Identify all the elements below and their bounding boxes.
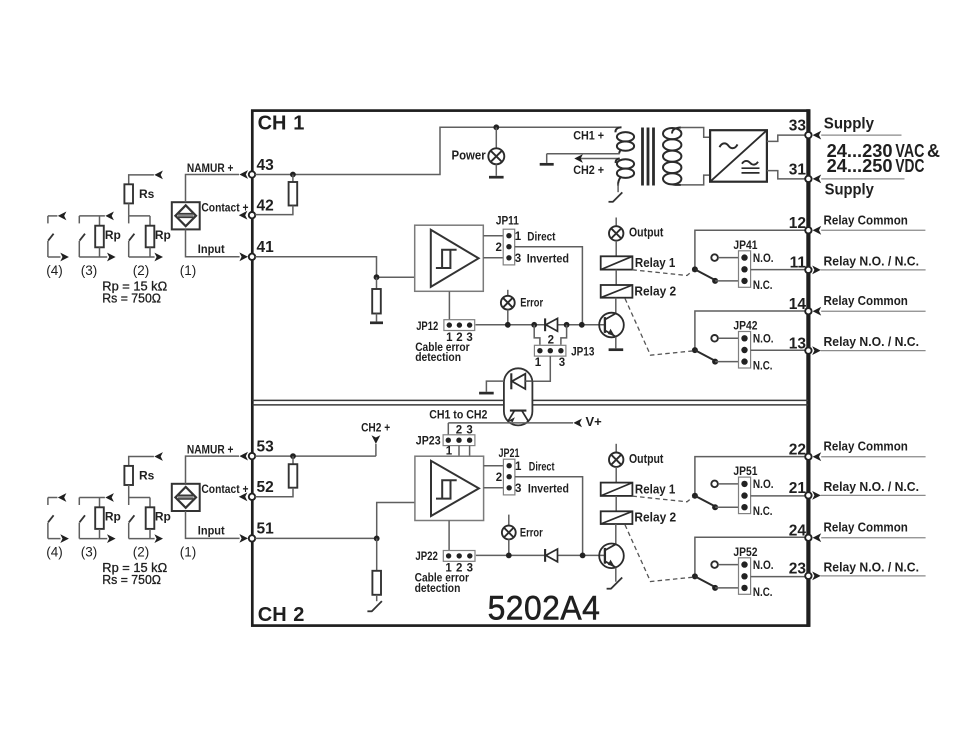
NAMUR sensor (1) CH2 [172,484,200,511]
terminal 42 [249,212,255,218]
svg-text:JP22: JP22 [415,549,438,563]
svg-text:(4): (4) [46,544,63,559]
svg-text:51: 51 [257,521,275,538]
svg-text:Input: Input [198,524,225,538]
svg-text:N.C.: N.C. [753,361,773,373]
wire NAMUR+ CH2 [186,456,240,484]
output lamp CH1 [615,218,617,227]
thick right border / terminal rail [806,109,810,627]
wire 43 to top rail [255,127,621,174]
svg-text:VDC: VDC [895,156,924,176]
svg-text:N.C.: N.C. [753,506,773,518]
svg-text:(1): (1) [180,544,197,559]
node error lamp CH2 [506,553,512,559]
svg-text:33: 33 [789,118,807,135]
svg-text:2: 2 [293,604,304,626]
svg-text:14: 14 [789,296,807,313]
node error lamp CH1 [505,322,511,328]
svg-text:(3): (3) [81,544,98,559]
relay common wire JP42 [695,311,806,350]
svg-text:N.O.: N.O. [753,479,774,491]
wires U1 to JP11 [483,235,503,237]
wire JP13 pin2 to optocoupler [532,356,550,381]
svg-text:31: 31 [789,161,807,178]
terminal 41 [249,254,255,260]
AC/DC converter U4 [710,130,767,182]
node on 53 line [290,453,296,459]
svg-text:(4): (4) [46,263,63,278]
relay common wire JP41 [695,230,806,269]
svg-text:Rp: Rp [155,509,171,523]
svg-text:Relay Common: Relay Common [824,293,908,308]
svg-text:detection: detection [415,350,461,364]
svg-text:Supply: Supply [825,181,874,198]
svg-text:(2): (2) [133,544,150,559]
svg-text:Direct: Direct [527,230,555,244]
svg-text:24: 24 [789,522,807,539]
wire U2 bottom to JP22 [448,521,450,552]
relay switch JP41 [711,254,718,261]
node base CH2 [580,553,586,559]
svg-text:Rs = 750Ω: Rs = 750Ω [102,573,161,587]
error line CH2 [476,554,545,556]
error lamp CH2 [508,515,510,526]
svg-text:V+: V+ [586,414,603,429]
relay coil Relay2 CH1 [601,285,633,298]
svg-text:CH: CH [258,604,287,626]
svg-text:Relay 1: Relay 1 [635,482,675,497]
wire 41 to comparator [255,257,415,277]
wire JP21 pin2 to output node [515,477,583,556]
ground tap of primary [546,154,548,163]
svg-text:52: 52 [257,479,274,496]
svg-text:JP23: JP23 [416,433,441,447]
node on 43 line [290,172,296,178]
diode D2 [544,549,546,562]
svg-text:Contact +: Contact + [201,482,248,496]
relay coil Relay2 CH2 [601,511,633,524]
dashed link Relay2 CH2 [625,525,693,582]
node diode left CH1 [531,322,537,328]
node input divider CH1 [374,274,380,280]
wire JP52 pin2 to terminal [751,576,806,578]
transformer T1 secondary winding [663,128,681,185]
svg-text:N.C.: N.C. [753,587,773,599]
svg-text:NAMUR +: NAMUR + [187,161,234,175]
svg-text:Inverted: Inverted [528,481,569,495]
svg-text:JP12: JP12 [416,319,438,333]
svg-text:41: 41 [257,239,275,256]
wire 51 to comparator [255,503,415,539]
terminal 52 [249,494,255,500]
svg-text:Rs: Rs [139,468,155,482]
wire Input CH2 [186,511,240,538]
svg-text:Output: Output [629,226,664,240]
arrow Contact+ CH2 [239,492,248,501]
svg-text:43: 43 [257,157,275,174]
svg-text:5202A4: 5202A4 [488,589,601,627]
svg-text:Relay Common: Relay Common [824,439,908,454]
wire U1 bottom to JP12 [448,291,450,319]
diode D1 [544,318,546,331]
transistor Q2 [615,524,617,544]
svg-text:CH1 +: CH1 + [573,129,604,143]
dashed link Relay1 CH1 [632,270,693,276]
terminal 43 [249,171,255,177]
svg-text:N.O.: N.O. [753,334,774,346]
relay coil Relay1 CH1 [601,256,633,269]
svg-text:N.O.: N.O. [753,253,774,265]
sensor (3) switch + Rp CH1 [79,215,105,217]
module outline box [252,111,808,626]
svg-text:detection: detection [415,581,461,595]
svg-text:JP52: JP52 [733,545,757,559]
svg-text:(2): (2) [133,263,150,278]
relay common wire JP51 [695,457,806,496]
svg-text:3: 3 [515,483,521,495]
svg-text:Relay N.O. / N.C.: Relay N.O. / N.C. [824,479,920,494]
svg-text:Rs: Rs [139,187,155,201]
svg-text:N.O.: N.O. [753,560,774,572]
dashed link Relay1 CH2 [632,496,693,502]
svg-text:22: 22 [789,441,806,458]
svg-text:3: 3 [515,253,521,265]
sensor (3) switch + Rp CH2 [79,497,105,499]
svg-text:Rp: Rp [155,228,171,242]
sensor (2) switch + Rs + Rp CH1 [129,175,154,184]
svg-text:CH2 +: CH2 + [361,421,390,435]
svg-text:1: 1 [293,113,304,135]
sensor (2) switch + Rs + Rp CH2 [129,457,154,466]
wire Input CH1 [186,229,240,256]
svg-text:Relay 2: Relay 2 [634,283,676,298]
svg-text:Relay Common: Relay Common [824,212,908,227]
ground below input resistor CH1 [370,321,383,324]
svg-text:Relay N.O. / N.C.: Relay N.O. / N.C. [824,559,920,574]
error lamp CH1 [507,290,509,296]
svg-text:JP11: JP11 [496,214,519,228]
svg-text:Relay N.O. / N.C.: Relay N.O. / N.C. [824,334,920,349]
resistor 43-42 [292,175,294,183]
wire NAMUR+ CH1 [186,175,240,203]
stubs to JP13 [534,325,540,345]
break slash CH2 input [372,601,382,611]
svg-text:23: 23 [789,561,807,578]
svg-text:Relay Common: Relay Common [824,520,908,535]
ground below power lamp [489,176,504,179]
svg-text:Relay 2: Relay 2 [634,510,676,525]
svg-text:Input: Input [198,242,225,256]
svg-text:NAMUR +: NAMUR + [187,443,234,457]
wire CH1 to CH2 line [448,422,573,424]
transistor Q1 [615,298,617,314]
svg-text:Direct: Direct [529,459,555,473]
arrow CH2+ to transformer [578,158,620,160]
relay switch JP51 [711,481,718,488]
wires converter to supply terminals [767,135,806,141]
svg-text:Output: Output [629,452,664,466]
svg-text:Error: Error [520,296,543,310]
LED inside optocoupler [510,373,512,389]
arrow Contact+ CH1 [239,211,248,220]
svg-text:JP51: JP51 [733,464,757,478]
wires U2 to JP21 [484,465,504,467]
wire JP51 pin2 to terminal [751,495,806,497]
sensor (4) switch CH2 [48,497,58,499]
terminal 53 [249,453,255,459]
svg-text:(3): (3) [81,263,98,278]
output lamp CH2 [615,444,617,453]
svg-text:Power: Power [452,148,486,163]
svg-text:24...250: 24...250 [827,156,893,176]
svg-text:1: 1 [515,461,522,473]
node power tap [493,124,499,130]
svg-text:CH2 +: CH2 + [573,163,604,177]
svg-text:&: & [927,141,940,161]
svg-text:21: 21 [789,480,807,497]
svg-text:1: 1 [535,357,542,369]
svg-text:Rs = 750Ω: Rs = 750Ω [102,292,161,306]
jumper JP23 [447,423,449,435]
comparator U1 CH1 [415,225,484,291]
error line CH1 [476,324,546,326]
transformer T1 primary winding 2 [616,159,634,186]
svg-text:2: 2 [495,242,501,254]
NAMUR sensor (1) CH1 [172,202,200,229]
svg-text:11: 11 [790,255,807,272]
svg-text:JP13: JP13 [571,345,595,359]
svg-text:CH: CH [258,113,287,135]
svg-text:JP42: JP42 [733,319,757,333]
arrow V+ [573,419,582,428]
resistor 53-52 [292,456,294,464]
svg-text:Inverted: Inverted [527,252,569,266]
relay coil Relay1 CH2 [601,483,633,496]
svg-text:CH1 to CH2: CH1 to CH2 [429,408,487,422]
svg-text:12: 12 [789,215,806,232]
svg-text:JP41: JP41 [733,238,757,252]
relay switch JP42 [711,335,718,342]
svg-text:13: 13 [789,335,807,352]
break slash at primary bottom [617,184,619,193]
ground optocoupler [479,392,494,395]
node diode right CH1 [564,322,570,328]
node base CH1 [579,322,585,328]
svg-text:Supply: Supply [824,116,874,133]
channel separator double line [252,399,504,401]
phototransistor inside optocoupler [510,410,527,412]
break slash below Q2 [611,578,622,589]
svg-text:N.C.: N.C. [753,280,773,292]
terminal 51 [249,535,255,541]
svg-text:53: 53 [257,438,275,455]
resistor input CH1 [376,277,378,289]
relay switch JP52 [711,561,718,568]
svg-text:Relay N.O. / N.C.: Relay N.O. / N.C. [824,253,920,268]
svg-text:JP21: JP21 [499,446,520,460]
svg-text:(1): (1) [180,263,197,278]
svg-text:Error: Error [520,526,543,540]
svg-text:Rp: Rp [105,509,121,523]
svg-text:2: 2 [496,472,502,484]
wire LED to ground [486,381,504,392]
comparator U2 CH2 [415,456,484,520]
dashed link Relay2 CH1 [625,299,693,356]
optocoupler U3 [504,368,533,425]
wire JP41 pin2 to terminal [751,269,806,271]
ground below Q1 [609,348,624,351]
relay common wire JP52 [695,537,806,576]
transformer core [641,128,644,186]
power lamp [495,127,497,148]
sensor (4) switch CH1 [48,215,58,217]
wire 53 line [255,455,376,457]
wire JP11 pin2 to output node [515,247,583,325]
resistor input CH2 [376,538,378,570]
svg-text:Relay 1: Relay 1 [635,255,675,270]
node input divider CH2 [374,536,380,542]
svg-text:1: 1 [515,231,522,243]
svg-text:3: 3 [559,357,565,369]
svg-text:Rp: Rp [105,228,121,242]
svg-text:Contact +: Contact + [201,200,248,214]
wire secondary to converter [681,128,710,138]
svg-text:42: 42 [257,198,274,215]
transformer T1 primary winding 1 [615,127,634,153]
wire JP42 pin2 to terminal [751,349,806,351]
